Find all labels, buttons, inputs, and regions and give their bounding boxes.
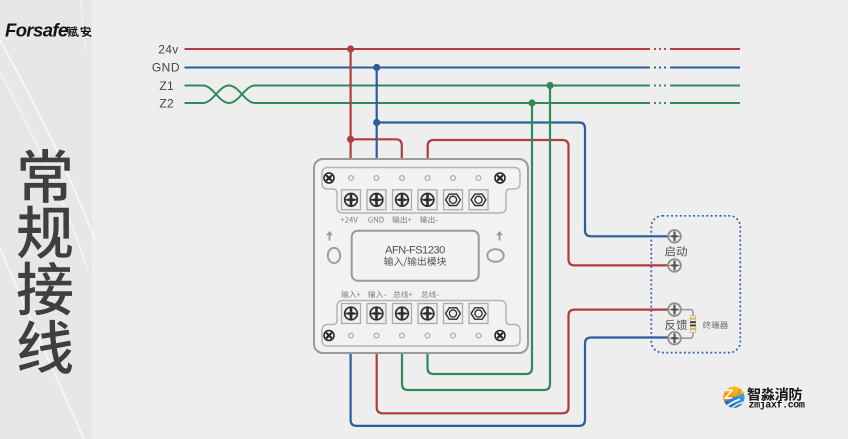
svg-text:24v: 24v [158, 43, 178, 57]
module bottom hex screw 5 [444, 304, 463, 324]
wire 24V bus to module +24V terminal [350, 49, 352, 160]
junction dot Z2 bus [528, 99, 535, 106]
module top terminal strip [322, 168, 520, 214]
module bottom terminal labels [341, 291, 439, 298]
svg-text:AFN-FS1230: AFN-FS1230 [385, 245, 445, 257]
反馈 - terminal [668, 332, 681, 345]
wire module 输出- to 启动 - terminal [428, 140, 669, 265]
wire GND bus to module GND terminal [376, 68, 378, 161]
junction dot 24V bus [347, 45, 354, 52]
label 启动 [665, 246, 687, 257]
module center label box [352, 231, 479, 281]
module bottom wire holes row [349, 333, 481, 338]
vertical title 接 [18, 262, 73, 316]
left gray sidebar [0, 0, 92, 439]
zmjaxf logo text 智淼消防 [747, 387, 802, 401]
svg-text:zmjaxf.com: zmjaxf.com [749, 399, 805, 411]
junction dot GND branch [373, 119, 380, 126]
device dashed box [651, 216, 740, 353]
启动 + terminal [668, 230, 681, 243]
svg-text:Z1: Z1 [159, 79, 174, 93]
module left arrow [326, 231, 333, 241]
module top hex screw 6 [469, 190, 488, 210]
wire module 输入- to 反馈 + terminal [377, 310, 669, 414]
module top hex screw 5 [444, 190, 463, 210]
module top terminal labels [341, 216, 438, 223]
module 输入- terminal screw [367, 304, 386, 324]
vertical title 线 [18, 320, 72, 374]
wire GND branch to 启动 + terminal [377, 123, 669, 237]
module right arrow [496, 231, 503, 241]
module +24V terminal screw [342, 190, 361, 210]
vertical title 规 [18, 206, 72, 259]
svg-text:Z2: Z2 [159, 97, 174, 111]
module type text 输入/输出模块 [384, 257, 446, 267]
sidebar decorative arcs [0, 0, 95, 439]
module bottom terminal strip [322, 301, 520, 347]
module body AFN-FS1230 [314, 159, 528, 353]
Forsafe logo cjk [67, 26, 92, 37]
module 输出+ terminal screw [393, 190, 412, 210]
启动 - terminal [668, 259, 681, 272]
module top wire holes row [349, 176, 481, 181]
module top-left corner screw [324, 173, 334, 183]
module 总线- terminal screw [418, 304, 437, 324]
module left oval [328, 248, 340, 263]
module 输入+ terminal screw [342, 304, 361, 324]
terminator resistor body [690, 316, 695, 333]
junction dot GND bus [373, 64, 380, 71]
module 总线+ terminal screw [393, 304, 412, 324]
zmjaxf logo mark [722, 387, 746, 412]
bus wire GND (blue) [185, 66, 741, 68]
module GND terminal screw [367, 190, 386, 210]
module top-right corner screw [495, 173, 505, 183]
bus wire 24V (red) [185, 48, 741, 50]
module bottom-right corner screw [495, 331, 505, 341]
wire Z2 bus to module 总线- terminal [428, 103, 533, 374]
junction dot Z1 bus [546, 82, 553, 89]
svg-text:Forsafe: Forsafe [5, 20, 68, 41]
wire branch +24V to module 输出+ terminal [351, 139, 402, 160]
svg-text:GND: GND [152, 61, 180, 75]
bus wire Z1 (green, twisted pair top) [185, 84, 741, 103]
bus wire Z2 (green, twisted pair bottom) [185, 86, 741, 105]
module bottom-left corner screw [324, 331, 334, 341]
vertical title 常 [21, 149, 70, 203]
module right oval [487, 249, 503, 262]
terminator leads [681, 310, 693, 339]
module 输出- terminal screw [418, 190, 437, 210]
terminator label 终端器 [703, 321, 728, 329]
反馈 + terminal [668, 303, 681, 316]
module bottom hex screw 6 [469, 304, 488, 324]
junction dot +24V branch [347, 136, 354, 143]
label 反馈 [665, 320, 687, 331]
wire module 输入+ to 反馈 - terminal [351, 338, 669, 426]
wire Z1 bus to module 总线+ terminal [402, 86, 550, 391]
